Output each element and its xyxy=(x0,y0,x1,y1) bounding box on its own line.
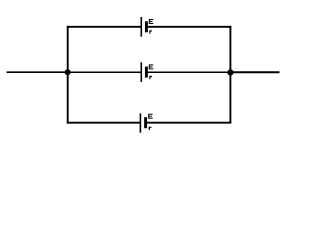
wire bottom branch right segment xyxy=(146,122,232,124)
label E emf of B1 xyxy=(149,19,154,24)
label E emf of B2 xyxy=(149,64,154,69)
battery cell B3 short thick plate xyxy=(144,117,147,128)
label r internal resistance of B3 xyxy=(149,127,152,131)
battery cell B2 short thick plate xyxy=(145,67,148,78)
battery cell B1 long plate xyxy=(140,17,142,37)
wire left vertical lower segment xyxy=(67,72,69,123)
battery cell B2 long plate xyxy=(140,62,142,82)
wire top branch left segment xyxy=(67,26,142,28)
wire external lead left xyxy=(7,71,68,73)
battery cell B3 long plate xyxy=(139,113,141,132)
wire top branch right segment xyxy=(146,26,231,28)
wire right vertical lower segment xyxy=(229,72,231,122)
label r internal resistance of B1 xyxy=(149,30,152,34)
label E emf of B3 xyxy=(148,114,153,119)
wire external lead right xyxy=(230,71,279,73)
wire middle branch right segment xyxy=(146,71,230,73)
battery cell B1 short thick plate xyxy=(145,21,148,32)
wire left vertical upper segment xyxy=(67,26,69,72)
wire bottom branch left segment xyxy=(67,122,141,124)
node left junction xyxy=(65,69,71,75)
wire right vertical upper segment xyxy=(229,26,231,73)
label r internal resistance of B2 xyxy=(149,76,152,80)
node right junction xyxy=(227,69,233,75)
wire middle branch left segment xyxy=(68,71,142,73)
